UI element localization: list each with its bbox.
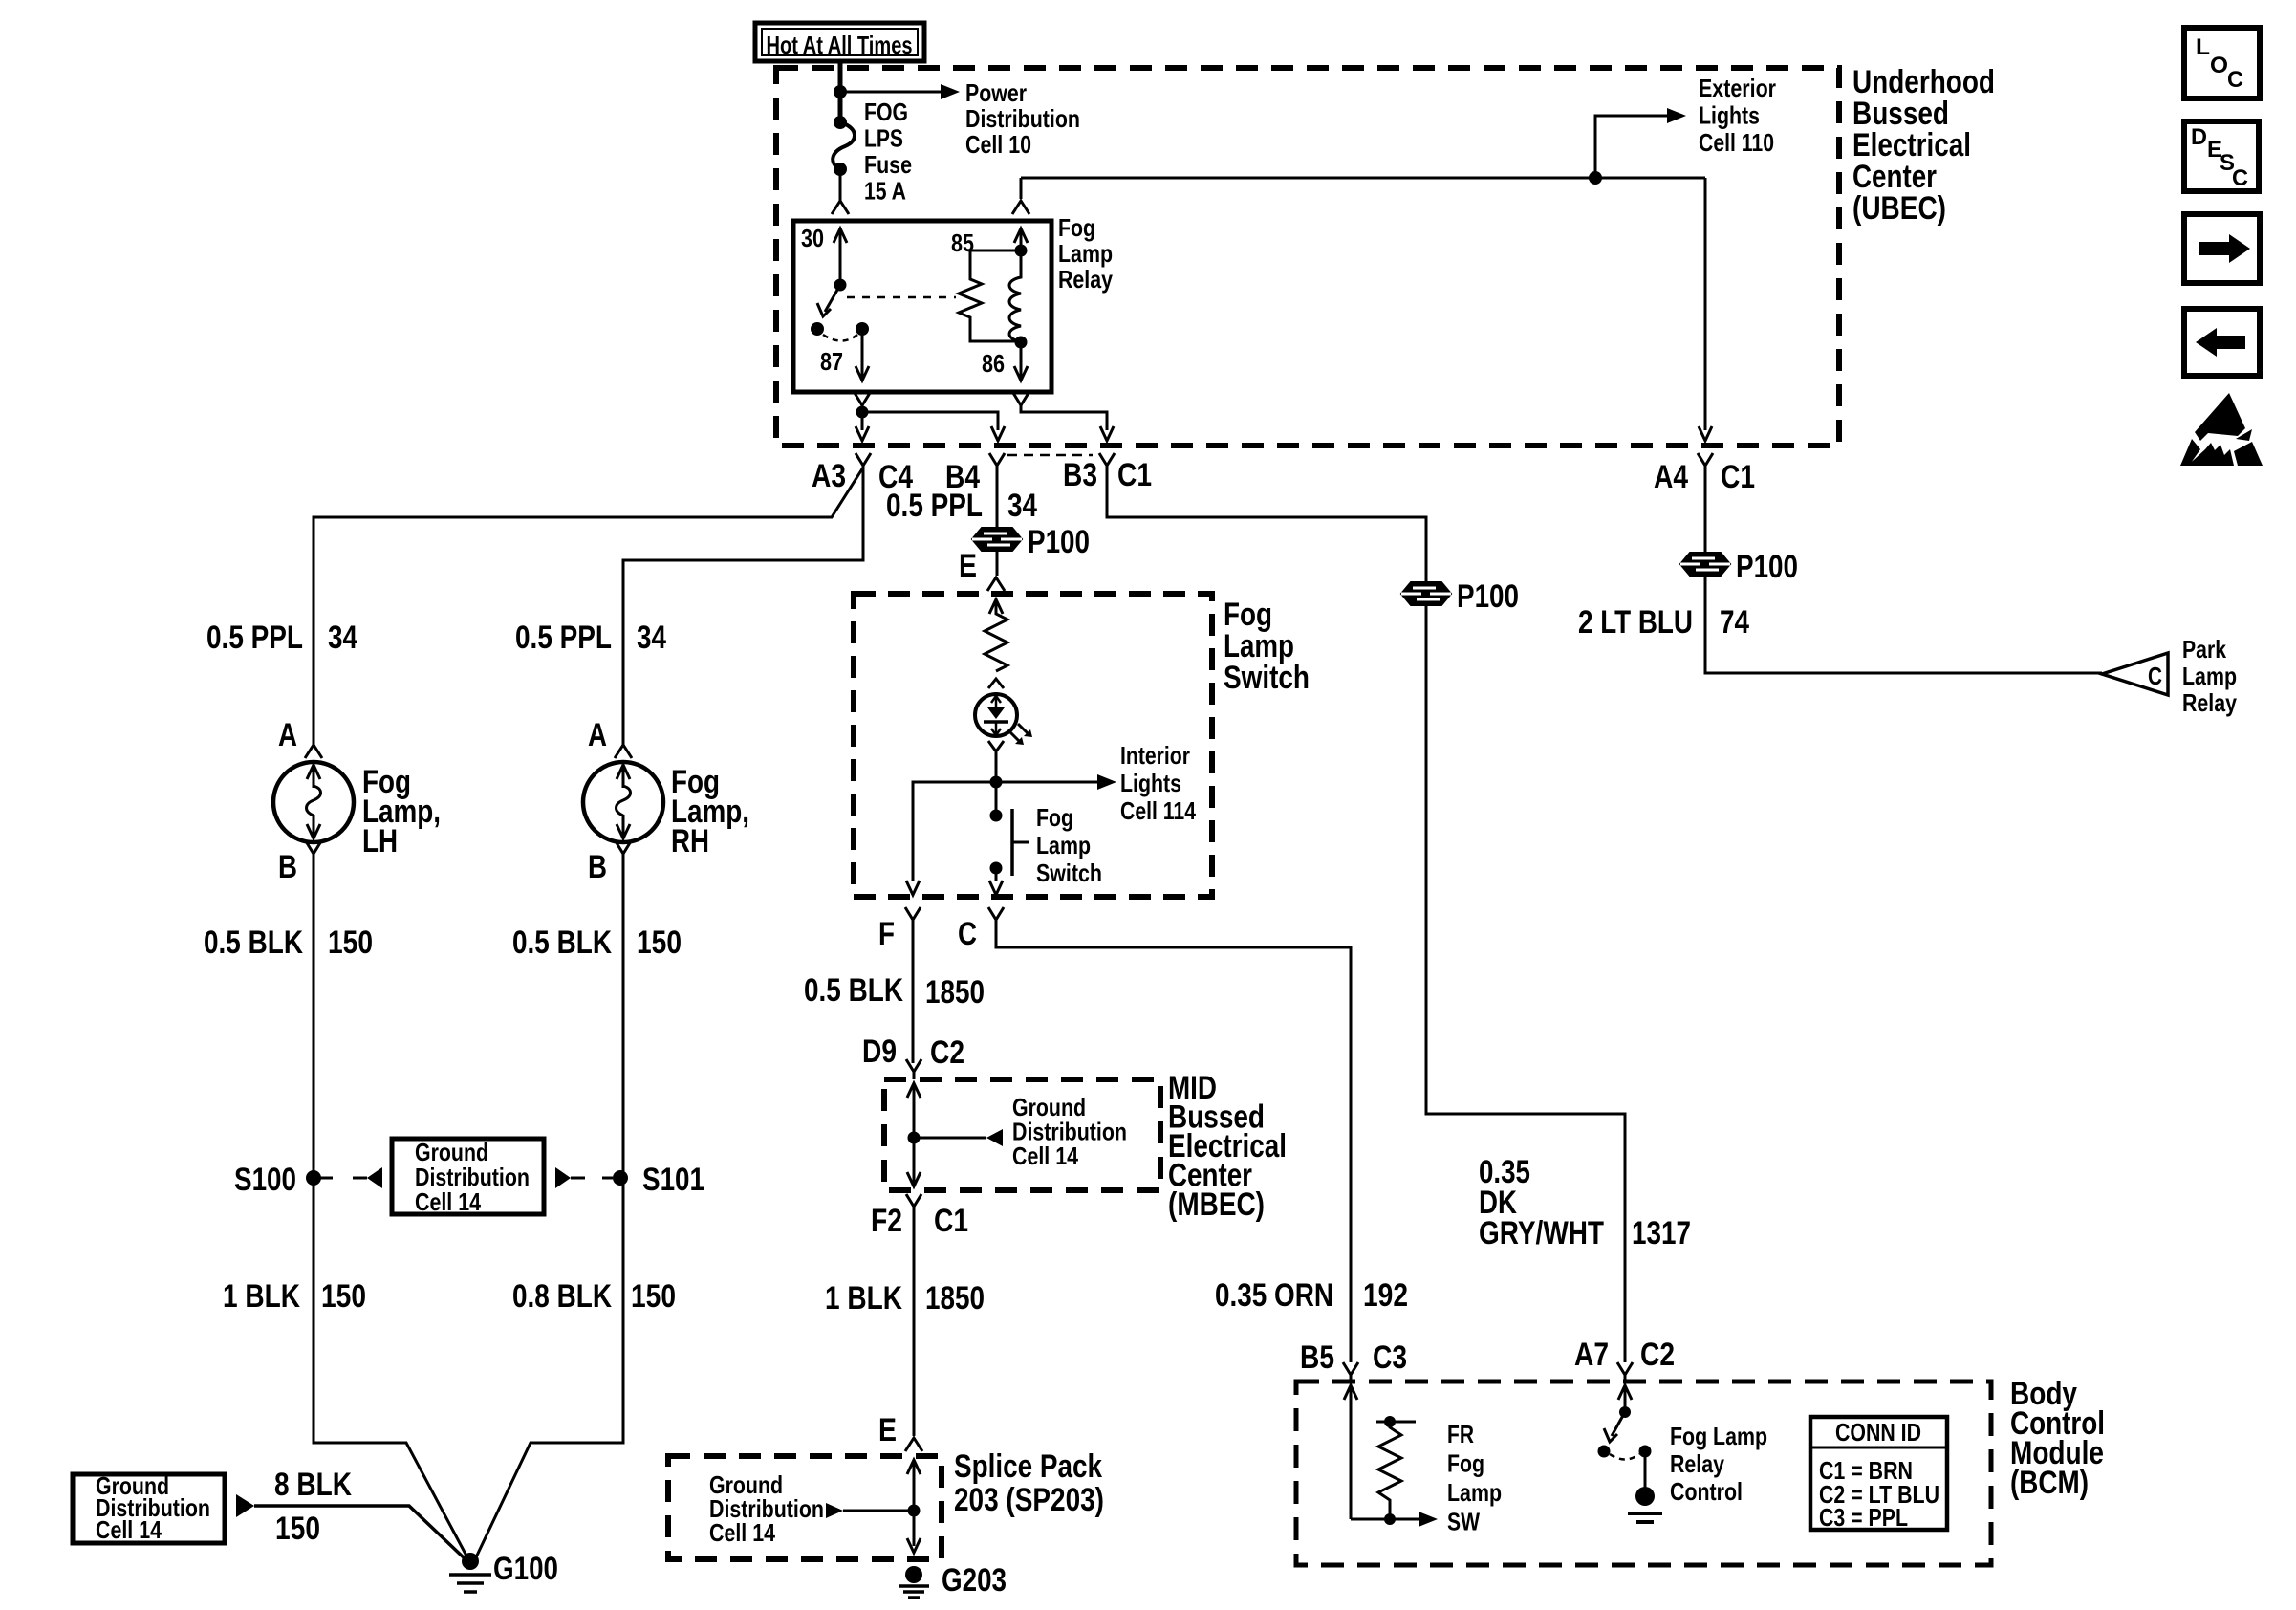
svg-text:FR: FR [1447, 1420, 1474, 1448]
wire battery feed to fuse [838, 61, 843, 122]
svg-text:1 BLK: 1 BLK [825, 1280, 902, 1316]
splice S100 [306, 1170, 321, 1186]
wire C4 to fog lamp RH [623, 468, 863, 746]
fuse FOG LPS 15 A [834, 116, 847, 129]
wire 86 jog to B3 [1021, 405, 1107, 430]
previous page arrow icon [2184, 309, 2260, 376]
svg-text:(UBEC): (UBEC) [1852, 190, 1946, 227]
svg-text:B: B [278, 849, 297, 885]
ground G100 [462, 1553, 479, 1570]
fog lamp relay box [793, 221, 1051, 392]
LED light rays [1009, 731, 1019, 741]
svg-text:Control: Control [1670, 1477, 1743, 1506]
ground fog lamp relay control [1635, 1487, 1655, 1506]
connector P100 switch feed [972, 528, 1022, 551]
wire B3 to A7 (fog lamp relay control) [1107, 468, 1625, 1362]
UBEC box [776, 68, 1839, 446]
junction 87 output [856, 406, 869, 419]
connector pin link dashed [1007, 454, 1093, 457]
svg-text:C2: C2 [930, 1034, 964, 1071]
splice S101 [613, 1170, 628, 1186]
svg-text:15 A: 15 A [864, 177, 906, 206]
connector D9/C2 [906, 1059, 921, 1079]
svg-text:A3: A3 [812, 458, 846, 494]
svg-text:0.5 PPL: 0.5 PPL [515, 620, 612, 656]
svg-text:Fog Lamp: Fog Lamp [1670, 1422, 1767, 1450]
splice pack 203 box [668, 1456, 942, 1559]
8 BLK ground wire [236, 1494, 254, 1517]
svg-text:150: 150 [328, 925, 373, 961]
junction to power distribution [834, 85, 847, 98]
svg-text:Switch: Switch [1224, 660, 1310, 696]
svg-text:RH: RH [671, 823, 709, 859]
connector B3/C1 [1099, 453, 1115, 473]
svg-text:FOG: FOG [864, 98, 908, 126]
svg-text:30: 30 [801, 224, 824, 252]
fog lamp relay control switch [1619, 1406, 1631, 1418]
connector Y below LED [988, 741, 1004, 751]
svg-text:(BCM): (BCM) [2010, 1465, 2089, 1501]
svg-text:C: C [2232, 165, 2248, 191]
svg-text:1850: 1850 [925, 1280, 985, 1316]
BCM box [1296, 1382, 1991, 1565]
svg-text:SW: SW [1447, 1508, 1480, 1536]
svg-text:Cell 14: Cell 14 [1012, 1142, 1078, 1170]
connector P100 relay control [1401, 582, 1451, 605]
svg-text:(MBEC): (MBEC) [1168, 1186, 1265, 1223]
svg-text:Lamp: Lamp [1058, 239, 1113, 268]
svg-text:Fog: Fog [1058, 213, 1095, 242]
svg-text:Exterior: Exterior [1699, 74, 1776, 102]
interior lights reference arrow [996, 781, 1097, 784]
ground G203 [905, 1566, 922, 1583]
wire branch to F [913, 782, 996, 881]
fog lamp switch box [854, 594, 1212, 897]
exterior lights feed wire [1021, 177, 1705, 180]
svg-text:A: A [588, 717, 607, 753]
connector A7/C2 [1617, 1362, 1633, 1382]
svg-text:1317: 1317 [1632, 1215, 1691, 1251]
FR fog lamp SW resistor [1376, 1421, 1416, 1424]
relay contact 87 dot [856, 322, 869, 336]
connector F [905, 907, 921, 927]
wire 87 down to A3 [861, 412, 864, 430]
park lamp relay reference [2102, 653, 2168, 695]
svg-text:Relay: Relay [1670, 1449, 1724, 1478]
svg-text:Switch: Switch [1036, 859, 1102, 887]
ground distribution cell 14 box at S100 [392, 1139, 544, 1214]
svg-text:A: A [278, 717, 297, 753]
power distribution reference arrow [840, 91, 941, 94]
wire LED to junction [995, 751, 998, 782]
svg-text:34: 34 [328, 620, 357, 656]
svg-text:C: C [958, 916, 977, 952]
svg-text:D9: D9 [862, 1033, 897, 1070]
ground distribution cell 14 box bottom left [73, 1474, 225, 1543]
svg-text:O: O [2210, 53, 2228, 78]
svg-text:LPS: LPS [864, 124, 903, 153]
svg-text:C3: C3 [1373, 1339, 1407, 1376]
switch feed resistor [989, 599, 1003, 614]
exterior lights reference arrow [1595, 116, 1667, 178]
wire S101 to G100 [475, 1178, 623, 1559]
svg-text:203 (SP203): 203 (SP203) [954, 1482, 1104, 1518]
BCM A7 entry wire [1618, 1385, 1632, 1400]
connector B5/C3 [1343, 1362, 1358, 1382]
svg-text:150: 150 [275, 1511, 320, 1547]
svg-text:GRY/WHT: GRY/WHT [1479, 1215, 1604, 1251]
loc icon [2184, 28, 2260, 98]
svg-text:LH: LH [362, 823, 398, 859]
svg-text:Lamp: Lamp [1036, 831, 1091, 859]
connector B4 [989, 453, 1005, 473]
svg-text:0.5 PPL: 0.5 PPL [206, 620, 303, 656]
svg-text:D: D [2191, 124, 2207, 150]
MBEC ground distribution reference arrow [914, 1137, 986, 1140]
svg-text:Fog: Fog [1036, 803, 1073, 832]
connector chevron E switch [987, 577, 1005, 591]
fog lamp switch contact [995, 782, 998, 816]
connector chevron lamp LH [305, 745, 322, 758]
svg-text:E: E [878, 1412, 897, 1448]
relay pin 30 [834, 228, 847, 243]
svg-text:0.5 BLK: 0.5 BLK [804, 972, 903, 1009]
connector F2/C1 [906, 1194, 921, 1214]
svg-text:0.5 PPL: 0.5 PPL [886, 488, 983, 524]
svg-text:Cell 14: Cell 14 [709, 1518, 775, 1547]
svg-text:C2: C2 [1640, 1337, 1675, 1373]
next page arrow icon [2184, 214, 2260, 283]
connector chevron at relay pin 30 [832, 201, 849, 214]
svg-text:L: L [2196, 34, 2210, 60]
svg-text:Power: Power [965, 78, 1027, 107]
relay switch arm [834, 279, 847, 292]
svg-text:Hot At All Times: Hot At All Times [767, 31, 913, 59]
svg-text:S100: S100 [234, 1162, 296, 1198]
svg-text:0.8 BLK: 0.8 BLK [512, 1278, 612, 1315]
svg-text:C1: C1 [934, 1203, 968, 1239]
relay contact travel dashed arc [823, 335, 857, 341]
svg-text:C: C [2227, 67, 2243, 93]
MBEC internal wire [907, 1083, 921, 1098]
relay pin 85 [1014, 228, 1028, 243]
wire A4 feed [1704, 178, 1707, 430]
svg-text:Park: Park [2182, 635, 2226, 664]
svg-text:Lights: Lights [1699, 101, 1760, 130]
connector A3/C4 [856, 453, 871, 473]
svg-text:1 BLK: 1 BLK [223, 1278, 300, 1315]
svg-text:G203: G203 [942, 1562, 1007, 1599]
svg-text:Lamp: Lamp [2182, 662, 2237, 690]
battery feed label "Hot At All Times" [755, 23, 924, 61]
svg-text:0.5 BLK: 0.5 BLK [204, 925, 303, 961]
splice ground distribution reference arrow [826, 1503, 843, 1518]
relay coil [1009, 250, 1021, 342]
wire F2 to splice pack [913, 1208, 916, 1436]
svg-text:Lights: Lights [1120, 769, 1181, 797]
svg-text:P100: P100 [1736, 549, 1798, 585]
connector chevron at relay pin 85 [1012, 201, 1029, 214]
connector Y below lamp RH [616, 841, 631, 861]
svg-text:0.5 BLK: 0.5 BLK [512, 925, 612, 961]
connector P100 park lamp [1680, 553, 1730, 576]
svg-text:150: 150 [631, 1278, 676, 1315]
svg-text:150: 150 [637, 925, 682, 961]
svg-text:150: 150 [321, 1278, 366, 1315]
svg-text:Cell 10: Cell 10 [965, 130, 1031, 159]
svg-text:F2: F2 [871, 1203, 902, 1239]
svg-text:87: 87 [820, 347, 843, 376]
svg-text:S101: S101 [642, 1162, 704, 1198]
svg-text:C1: C1 [1117, 457, 1152, 493]
junction interior lights [990, 776, 1003, 789]
svg-text:Cell 14: Cell 14 [415, 1187, 481, 1216]
svg-text:P100: P100 [1028, 524, 1090, 560]
wire A3 to fog lamp LH [314, 468, 863, 746]
svg-text:B3: B3 [1063, 457, 1097, 493]
relay contact dot left [811, 322, 824, 336]
junction exterior lights [1589, 171, 1602, 185]
svg-text:C: C [2148, 662, 2162, 690]
wire lamp RH to S101 [622, 856, 625, 1178]
svg-text:Fuse: Fuse [864, 150, 912, 179]
fog lamp RH [583, 762, 663, 842]
relay 87 output connector [855, 393, 870, 413]
connector Y below lamp LH [306, 841, 321, 861]
wire F to D9 [912, 922, 915, 1063]
svg-text:G100: G100 [493, 1551, 558, 1587]
svg-text:C3 = PPL: C3 = PPL [1819, 1503, 1908, 1532]
relay mechanical link dashed [847, 296, 956, 299]
wire lamp LH to S100 [313, 856, 315, 1178]
svg-text:0.35 ORN: 0.35 ORN [1215, 1277, 1333, 1314]
wire C to B5 [996, 922, 1351, 1362]
desc icon [2184, 121, 2259, 191]
svg-text:86: 86 [982, 349, 1005, 378]
svg-text:Cell 114: Cell 114 [1120, 796, 1196, 825]
relay coil suppression resistor [959, 250, 1021, 341]
BCM B5 entry wire [1344, 1385, 1357, 1400]
wire P100 to E [996, 551, 999, 576]
svg-text:Lamp: Lamp [1447, 1478, 1502, 1507]
svg-text:CONN ID: CONN ID [1835, 1418, 1921, 1447]
connector A4/C1 [1698, 453, 1713, 473]
svg-text:Distribution: Distribution [965, 104, 1080, 133]
svg-text:Relay: Relay [2182, 688, 2237, 717]
relay pin 87 wire [861, 329, 864, 379]
svg-text:E: E [959, 548, 977, 584]
svg-text:C1: C1 [1721, 459, 1755, 495]
svg-text:192: 192 [1363, 1277, 1408, 1314]
svg-text:F: F [878, 916, 895, 952]
svg-text:2 LT BLU: 2 LT BLU [1578, 604, 1693, 641]
connector chevron above LED [988, 679, 1004, 688]
CONN ID table [1810, 1417, 1947, 1530]
relay pin 86 wire [1015, 337, 1028, 349]
connector chevron E splice [905, 1438, 922, 1451]
svg-text:A7: A7 [1574, 1337, 1609, 1373]
svg-text:B: B [588, 849, 607, 885]
svg-text:Cell 14: Cell 14 [96, 1515, 162, 1544]
svg-text:B5: B5 [1300, 1339, 1334, 1376]
svg-text:8 BLK: 8 BLK [274, 1467, 352, 1503]
svg-text:Interior: Interior [1120, 741, 1190, 770]
MBEC box [884, 1079, 1160, 1190]
wire S100 to G100 [314, 1178, 468, 1559]
connector chevron lamp RH [615, 745, 632, 758]
switch LED [975, 694, 1017, 736]
wire 87 jog to B4 [862, 412, 998, 430]
svg-text:Relay: Relay [1058, 265, 1113, 294]
svg-text:1850: 1850 [925, 974, 985, 1011]
ground distribution reference left arrow [314, 1177, 333, 1180]
MBEC junction [908, 1132, 921, 1144]
svg-text:34: 34 [637, 620, 666, 656]
esd caution symbol [2195, 393, 2245, 441]
svg-text:A4: A4 [1654, 459, 1688, 495]
relay 86 output connector [1013, 393, 1029, 413]
svg-text:74: 74 [1720, 604, 1749, 641]
splice internal wire [907, 1460, 921, 1474]
svg-text:34: 34 [1007, 488, 1037, 524]
svg-text:Cell 110: Cell 110 [1699, 128, 1774, 157]
svg-text:P100: P100 [1457, 578, 1519, 615]
wire fuse to relay pin 30 [839, 169, 842, 201]
wire P100 to park lamp relay [1705, 576, 2102, 673]
FR fog lamp SW output arrow [1351, 1518, 1419, 1521]
fog lamp LH [273, 762, 354, 842]
ground distribution reference right arrow [555, 1167, 571, 1188]
wire A4 to P100 [1704, 468, 1707, 553]
wire B4 to P100 [996, 468, 999, 529]
svg-text:Splice Pack: Splice Pack [954, 1448, 1102, 1485]
connector C [988, 907, 1004, 927]
svg-text:Fog: Fog [1447, 1449, 1484, 1478]
